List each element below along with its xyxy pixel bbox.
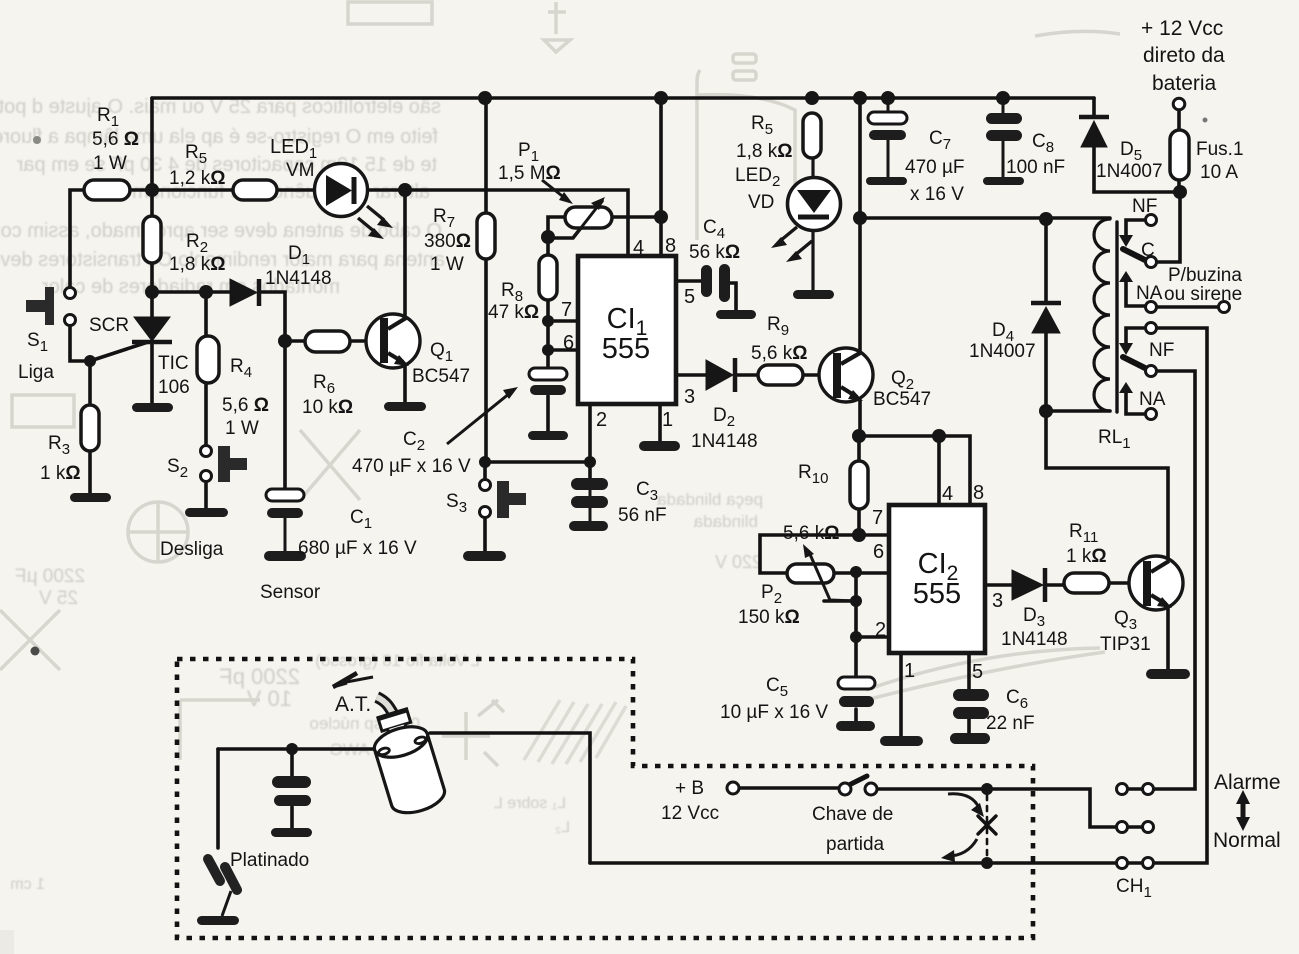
svg-text:te de 15 10m capacitores de 4: te de 15 10m capacitores de 4 30 pF se e… [16,154,437,176]
svg-text:555: 555 [913,578,961,610]
svg-text:220 V: 220 V [715,552,762,572]
svg-text:470 µF x 16 V: 470 µF x 16 V [352,456,471,477]
svg-text:+ 12 Vcc: + 12 Vcc [1141,17,1223,40]
svg-text:1 W: 1 W [225,418,259,439]
svg-text:56 nF: 56 nF [618,505,667,526]
svg-text:2: 2 [875,619,886,641]
svg-text:1 W: 1 W [93,153,127,174]
svg-text:2: 2 [596,409,607,431]
svg-text:Normal: Normal [1213,829,1281,852]
svg-text:5: 5 [972,661,983,683]
svg-text:1,8 kΩ: 1,8 kΩ [169,254,225,275]
svg-text:8: 8 [665,235,676,257]
svg-text:Platinado: Platinado [230,850,309,871]
svg-text:1 kΩ: 1 kΩ [1066,546,1107,567]
svg-text:VD: VD [748,192,774,213]
svg-text:NA: NA [1136,283,1163,304]
svg-text:100 nF: 100 nF [1006,157,1065,178]
svg-text:L₂: L₂ [555,819,570,836]
svg-text:22 nF: 22 nF [986,713,1035,734]
svg-text:380Ω: 380Ω [424,231,471,252]
svg-text:Chave de: Chave de [812,804,893,825]
svg-text:1N4007: 1N4007 [1096,161,1163,182]
svg-text:4: 4 [633,237,644,259]
svg-text:Sensor: Sensor [260,582,321,603]
svg-text:NF: NF [1149,340,1174,361]
svg-text:VM: VM [286,160,315,181]
svg-text:470 µF: 470 µF [905,157,965,178]
svg-text:106: 106 [158,377,190,398]
svg-text:7: 7 [561,299,572,321]
svg-text:+ B: + B [675,778,704,799]
svg-text:25 V: 25 V [39,588,78,609]
svg-text:direto da: direto da [1143,44,1225,67]
svg-text:1,5 MΩ: 1,5 MΩ [498,163,561,184]
svg-text:SCR: SCR [89,315,129,336]
svg-text:ou sirene: ou sirene [1164,284,1242,305]
svg-text:1N4148: 1N4148 [265,268,332,289]
svg-text:2200 µF: 2200 µF [15,566,85,587]
svg-text:5,6 kΩ: 5,6 kΩ [783,523,839,544]
svg-text:1N4007: 1N4007 [969,341,1036,362]
svg-text:1 cm: 1 cm [10,876,45,893]
svg-text:7: 7 [872,507,883,529]
svg-text:L₁ sobre L: L₁ sobre L [494,795,566,812]
svg-text:NA: NA [1139,389,1166,410]
svg-text:peça blindada: peça blindada [657,490,763,509]
svg-text:6: 6 [563,332,574,354]
svg-text:BC547: BC547 [412,366,470,387]
svg-text:3: 3 [684,386,695,408]
svg-text:5,6 Ω: 5,6 Ω [222,395,269,416]
svg-text:47 kΩ: 47 kΩ [488,302,539,323]
svg-text:1 kΩ: 1 kΩ [40,463,81,484]
svg-text:BC547: BC547 [873,389,931,410]
svg-text:partida: partida [826,834,885,855]
svg-text:bateria: bateria [1152,72,1217,95]
svg-text:5,6 Ω: 5,6 Ω [92,129,139,150]
svg-text:feito em O registro-se é ap el: feito em O registro-se é ap ela uma lâmp… [0,126,438,148]
svg-text:1 W: 1 W [430,254,464,275]
svg-text:56 kΩ: 56 kΩ [689,242,740,263]
svg-text:blindada: blindada [693,512,758,531]
svg-text:TIC: TIC [158,353,189,374]
svg-text:1,2 kΩ: 1,2 kΩ [169,168,225,189]
svg-text:A.T.: A.T. [335,693,371,716]
svg-text:555: 555 [602,333,650,365]
svg-text:Fus.1: Fus.1 [1196,139,1244,160]
svg-text:1,8 kΩ: 1,8 kΩ [736,141,792,162]
svg-text:10 µF x 16 V: 10 µF x 16 V [720,702,828,723]
svg-text:8: 8 [973,482,984,504]
svg-text:1N4148: 1N4148 [691,431,758,452]
svg-text:6: 6 [873,541,884,563]
svg-text:5: 5 [684,286,695,308]
svg-text:5,6 kΩ: 5,6 kΩ [751,343,807,364]
svg-text:1: 1 [904,660,915,682]
svg-text:x 16 V: x 16 V [910,184,964,205]
svg-text:Desliga: Desliga [160,539,224,560]
svg-text:680 µF x 16 V: 680 µF x 16 V [298,538,417,559]
svg-text:10 A: 10 A [1200,162,1238,183]
svg-text:Alarme: Alarme [1214,771,1281,794]
svg-text:C: C [1141,240,1155,261]
svg-text:TIP31: TIP31 [1100,634,1151,655]
svg-text:P/buzina: P/buzina [1168,265,1242,286]
svg-text:Liga: Liga [18,362,54,383]
svg-text:1: 1 [662,409,673,431]
svg-text:3: 3 [992,590,1003,612]
svg-text:NF: NF [1132,196,1157,217]
svg-text:4: 4 [942,483,953,505]
svg-text:12 Vcc: 12 Vcc [661,803,719,824]
svg-text:1N4148: 1N4148 [1001,629,1068,650]
svg-text:10 kΩ: 10 kΩ [302,397,353,418]
svg-text:150 kΩ: 150 kΩ [738,607,800,628]
